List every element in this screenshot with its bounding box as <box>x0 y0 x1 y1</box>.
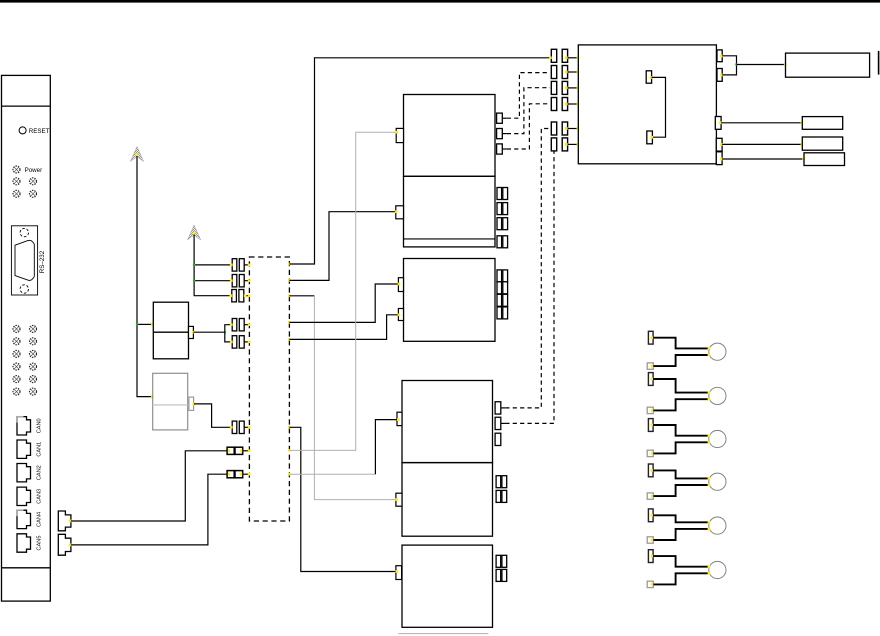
wire R3 stub <box>289 295 314 297</box>
dashed net U1p1 <box>507 73 550 119</box>
wire split lower <box>225 332 231 342</box>
ctrl row1 pair <box>549 49 579 62</box>
cable plug P2 <box>58 534 71 555</box>
DB9 screw top <box>20 228 28 236</box>
wire F gray to PLC1-U1 <box>289 132 396 450</box>
pin term3 <box>802 158 805 161</box>
node RF2 in <box>151 395 154 398</box>
sensor unit S1 <box>647 331 726 369</box>
RF box U2 (black) <box>153 302 188 359</box>
pin L3 left <box>395 570 398 573</box>
wire R3 to term1 <box>721 122 802 124</box>
svg-text:RS–232: RS–232 <box>39 250 46 273</box>
junction ANT2 A <box>193 264 195 266</box>
U2 left port <box>396 206 404 219</box>
node R1 <box>288 263 291 266</box>
ctrl row6 pair <box>551 138 579 151</box>
pin U3 port2 <box>398 313 401 316</box>
pin R1 <box>720 55 723 58</box>
U3 divider <box>153 404 188 406</box>
pin R2 <box>720 74 723 77</box>
svg-text:CAN3: CAN3 <box>37 489 43 504</box>
pin term1 <box>801 121 804 124</box>
ctrl row5 pair <box>551 122 579 135</box>
DB9 D-shell <box>15 240 34 280</box>
U3 left port2 <box>398 309 403 321</box>
L2 right pair2 <box>496 490 507 502</box>
wire W2 to PLC1-U3 pin2 <box>289 315 398 340</box>
sensor unit S3 <box>647 419 726 457</box>
U3 right pair1 <box>497 270 508 282</box>
U10 right pin R1 <box>717 50 722 62</box>
pin U3 out <box>192 403 195 406</box>
U10 jumper pin2 <box>647 131 653 144</box>
svg-text:CAN4: CAN4 <box>37 512 43 527</box>
pin L1 left <box>397 418 400 421</box>
joint pair G <box>227 471 250 478</box>
U2 footer line <box>404 238 496 240</box>
U10 right pin R5 <box>716 152 722 165</box>
status LED row2 left <box>13 178 20 185</box>
pin U1 left <box>395 131 398 134</box>
wire R5 to term3 <box>722 158 804 160</box>
CAN LED row4 right <box>30 363 37 370</box>
joint pair C <box>229 290 250 302</box>
CAN0 connector <box>17 417 31 435</box>
U10 jumper pin1 <box>646 71 651 83</box>
CAN LED row6 left <box>13 388 20 395</box>
pin P1 <box>69 520 72 523</box>
clipped box at sheet edge <box>878 51 880 75</box>
PLC1 module U3 <box>404 259 496 342</box>
L1 left port <box>397 412 402 425</box>
pin L2 left <box>395 498 398 501</box>
sensor unit S5 <box>647 509 726 543</box>
L3 right pair1 <box>496 555 507 567</box>
sensor unit S4 <box>647 464 726 499</box>
L2 right pair1 <box>496 476 507 488</box>
ANT1 branch to RF box1 <box>137 323 153 325</box>
CAN4 connector <box>17 510 31 528</box>
CAN LED row5 right <box>30 376 37 383</box>
U3 right pair4 <box>497 307 508 319</box>
U3 right pair2 <box>497 282 508 294</box>
dashed net U1p2 <box>507 88 550 134</box>
wire R1R2 bracket <box>722 56 736 75</box>
node R2 <box>288 279 291 282</box>
CAN2 connector <box>17 464 31 482</box>
pin U2 left <box>395 210 398 213</box>
PSU box <box>786 53 870 77</box>
U2 divider <box>153 331 188 333</box>
U1 right pin3 <box>497 144 507 154</box>
antenna ANT1 head <box>130 147 143 162</box>
dashed net U1p3 <box>507 104 550 149</box>
control box U10 <box>578 45 716 164</box>
L1 right pin1 <box>495 402 505 414</box>
CAN LED row2 right <box>30 338 37 345</box>
U10 right pin R3 <box>715 117 721 130</box>
node W1 <box>288 321 291 324</box>
Power LED <box>13 166 20 173</box>
L1 right pin3 <box>495 433 501 445</box>
joint pair D1 <box>230 319 251 331</box>
PLC1 module U1 <box>404 95 496 177</box>
svg-text:CAN0: CAN0 <box>37 418 43 433</box>
wire G riser to PLC2-L1 <box>375 420 398 475</box>
wire G gray run <box>289 473 375 475</box>
node R3 <box>288 294 291 297</box>
wire to PSU box <box>737 64 786 66</box>
junction ANT1 <box>136 323 138 325</box>
L2 left port <box>396 493 402 506</box>
sensor unit S2 <box>647 373 726 414</box>
DB9 screw bottom <box>20 285 28 293</box>
ctrl row4 pair <box>551 98 579 111</box>
U1 left port <box>396 128 403 142</box>
svg-text:Power: Power <box>25 167 43 174</box>
cable plug P1 <box>58 511 71 531</box>
CAN LED row5 left <box>13 376 20 383</box>
PLC2 module L3 <box>402 545 493 627</box>
U10 jumper wire <box>652 77 666 137</box>
CAN5 connector <box>17 534 31 552</box>
pin J2 <box>650 136 653 139</box>
L1 right pin2 <box>495 417 505 429</box>
antenna ANT2 feed wire <box>194 235 231 296</box>
sensor unit S6 <box>647 550 726 588</box>
node W2 <box>288 338 291 341</box>
antenna ANT2 head <box>188 225 201 240</box>
pin U2 out <box>192 331 195 334</box>
CAN LED row6 right <box>30 388 37 395</box>
CAN1 connector <box>17 440 31 458</box>
CAN LED row2 left <box>13 338 20 345</box>
wire P1 to pair F <box>71 451 227 521</box>
L3 left port <box>396 566 402 580</box>
node RG <box>288 473 291 476</box>
pin J1 <box>650 76 653 79</box>
RESET button <box>19 127 26 134</box>
status LED row2 right <box>30 178 37 185</box>
CAN LED row4 left <box>13 363 20 370</box>
PLC2 module L2 <box>402 463 493 537</box>
wire R4 to term2 <box>722 143 802 145</box>
pin PSU in <box>784 63 787 66</box>
panel top section divider <box>2 105 51 107</box>
U2 right pair2 <box>497 203 508 215</box>
U3 right pair3 <box>497 294 508 306</box>
PLC2 module L1 <box>402 381 493 463</box>
U1 right pin1 <box>497 113 507 123</box>
joint pair D2 <box>230 336 251 348</box>
gray base line <box>398 633 488 635</box>
U3 left port1 <box>398 278 403 292</box>
U2 right pair4 <box>497 236 508 248</box>
junction R1R2 <box>735 63 737 65</box>
U3 output tab <box>189 397 194 410</box>
dashed net L1p2 <box>505 152 554 424</box>
top border bar <box>0 0 880 3</box>
joint pair F <box>227 447 250 454</box>
terminal box T3 <box>804 153 845 166</box>
wire U3 to joint E <box>194 404 231 427</box>
wire E to PLC2-L3 <box>289 427 396 571</box>
joint pair B <box>230 275 251 287</box>
node RE <box>288 426 291 429</box>
junction ANT2 B <box>193 280 195 282</box>
terminal box T2 <box>802 137 842 150</box>
panel bottom section divider <box>2 567 51 569</box>
wire P2 to pair G <box>71 474 227 545</box>
U10 right pin R2 <box>717 69 722 82</box>
pin term2 <box>801 143 804 146</box>
CAN LED row1 left <box>13 325 20 332</box>
status LED row3 left <box>13 190 20 197</box>
terminal box T1 <box>802 117 842 130</box>
wire R2 to PLC2-U5 <box>289 212 395 281</box>
ANT2 branch A <box>194 264 231 266</box>
node RF1 in <box>151 323 154 326</box>
ctrl row3 pair <box>551 81 579 94</box>
RS-232 DB9 bezel <box>11 226 37 295</box>
svg-text:CAN1: CAN1 <box>37 442 43 457</box>
status LED row3 right <box>30 190 37 197</box>
svg-text:CAN5: CAN5 <box>37 536 43 551</box>
device panel outline <box>2 75 51 601</box>
L3 right pair2 <box>496 569 507 581</box>
dashed net L1p1 <box>505 129 550 408</box>
junction box (dashed) <box>249 257 289 521</box>
joint pair E <box>230 421 251 433</box>
ANT2 branch B <box>194 280 231 282</box>
pin R4 <box>720 143 723 146</box>
U1 right pin2 <box>497 129 507 139</box>
wire W1 to PLC1-U3 pin1 <box>289 284 398 322</box>
U2 right pair1 <box>497 188 508 200</box>
pin R3 <box>719 121 722 124</box>
node RF <box>288 449 291 452</box>
PLC1 module U2 <box>404 176 496 247</box>
antenna ANT1 feed wire <box>137 156 153 397</box>
pin U3 port1 <box>398 283 401 286</box>
wire split upper <box>225 325 231 333</box>
CAN LED row3 right <box>30 350 37 357</box>
U2 right pair3 <box>497 218 508 230</box>
U2 output tab <box>189 326 194 338</box>
wire U2 to splitter <box>193 331 224 333</box>
U10 right pin R4 <box>716 138 722 151</box>
joint pair A <box>230 259 251 271</box>
CAN3 connector <box>17 487 31 505</box>
wire R1 riser to control box <box>289 58 550 264</box>
wire R3 gray drop to PLC2-L2 <box>314 296 396 500</box>
pin P2 <box>69 544 72 547</box>
pin R5 <box>720 158 723 161</box>
CAN LED row1 right <box>30 325 37 332</box>
CAN LED row3 left <box>13 350 20 357</box>
junction U2 split <box>224 331 226 333</box>
ctrl row2 pair <box>551 66 579 79</box>
svg-text:RESET: RESET <box>29 128 50 135</box>
RF box U3 (gray) <box>153 373 188 430</box>
svg-text:CAN2: CAN2 <box>37 465 43 480</box>
